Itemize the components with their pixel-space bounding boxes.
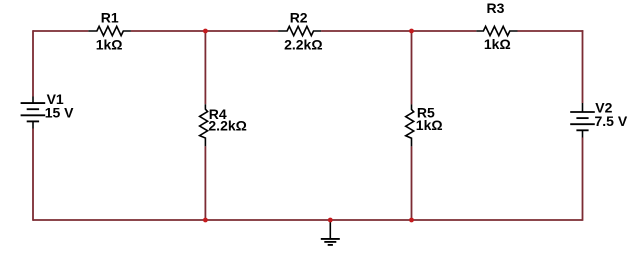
svg-text:2.2kΩ: 2.2kΩ	[284, 37, 322, 53]
battery V1 top lead	[32, 97, 34, 104]
svg-text:2.2kΩ: 2.2kΩ	[208, 118, 246, 134]
battery V2 bottom lead	[582, 130, 584, 137]
battery V1 plate 1 (long)	[21, 102, 46, 104]
ground bar 3	[328, 244, 333, 246]
wire left vertical above V1	[32, 30, 34, 96]
battery V2 plate 3 (long)	[570, 123, 595, 125]
resistor R5	[406, 104, 414, 146]
svg-text:R1: R1	[101, 10, 119, 26]
battery V1 plate 3 (long)	[21, 114, 46, 116]
wire middle vertical below R4	[204, 146, 206, 220]
wire top segment left (node corner to R1)	[33, 30, 88, 32]
svg-text:R2: R2	[290, 9, 308, 25]
wire middle vertical below R5	[411, 146, 413, 220]
battery V1 plate 4 (short)	[27, 120, 39, 122]
battery V1 bottom lead	[32, 121, 34, 128]
junction node A (top, R1/R2/R4)	[203, 29, 208, 34]
battery V2 plate 2 (short)	[576, 117, 588, 119]
ground bar 1	[321, 238, 340, 240]
ground bar 2	[324, 241, 336, 243]
svg-text:15 V: 15 V	[45, 104, 74, 120]
battery V1 plate 2 (short)	[27, 108, 39, 110]
junction node B (top, R2/R3/R5)	[409, 29, 414, 34]
wire left vertical below V1	[32, 129, 34, 221]
wire middle vertical above R5	[411, 31, 413, 104]
wire right vertical above V2	[582, 30, 584, 103]
resistor R2	[278, 26, 321, 35]
wire top segment R1 to node A	[131, 30, 278, 32]
battery V2 plate 1 (long)	[570, 111, 595, 113]
wire middle vertical above R4	[204, 31, 206, 104]
svg-text:7.5 V: 7.5 V	[595, 113, 628, 129]
svg-text:1kΩ: 1kΩ	[96, 37, 123, 53]
svg-text:R3: R3	[487, 0, 505, 16]
battery V2 top lead	[582, 103, 584, 112]
wire bottom horizontal	[33, 219, 583, 221]
junction node bottom under R4	[203, 218, 208, 223]
svg-text:1kΩ: 1kΩ	[484, 36, 511, 52]
junction node at ground	[328, 218, 333, 223]
ground lead	[329, 220, 331, 239]
svg-text:1kΩ: 1kΩ	[416, 117, 443, 133]
wire top segment R2 to node B	[321, 30, 476, 32]
resistor R3	[476, 26, 517, 35]
wire top segment R3 to right corner	[518, 30, 584, 32]
wire right vertical below V2	[582, 138, 584, 221]
resistor R4	[200, 104, 208, 146]
junction node bottom under R5	[409, 218, 414, 223]
resistor R1	[88, 26, 131, 35]
battery V2 plate 4 (short)	[576, 129, 588, 131]
